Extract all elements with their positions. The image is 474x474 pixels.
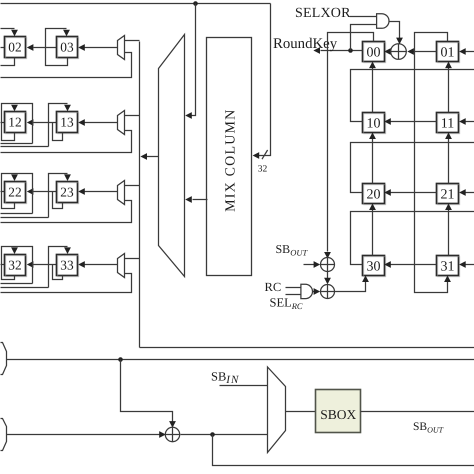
mux M5 (sbox input select) — [268, 367, 286, 453]
wire row2 wrap to mux M2 input B — [1, 201, 132, 223]
wire shift 10 up — [369, 62, 376, 113]
wire top bus line — [1, 3, 271, 5]
wire rail to mux M2 input A — [125, 185, 140, 187]
label SB_OUT bottom — [413, 421, 444, 434]
register 30 — [363, 256, 386, 277]
wire row0 wrap to mux M0 input B — [1, 53, 132, 78]
wire shift channel B row2 — [1, 217, 49, 219]
register 01 — [437, 42, 460, 63]
label 32 — [258, 165, 268, 175]
register 32 — [5, 255, 27, 277]
label SB_OUT key — [276, 242, 309, 257]
wire xor2 to 30 — [335, 275, 369, 291]
wire mux M4 output to rail — [140, 153, 158, 160]
wire RC to and gate — [286, 287, 301, 289]
register 21 — [437, 184, 460, 205]
mux M1 — [118, 111, 125, 135]
wire rail to mux M1 input A — [125, 115, 140, 117]
svg-text:01: 01 — [441, 45, 455, 60]
svg-text:31: 31 — [441, 259, 455, 274]
svg-text:10: 10 — [367, 116, 381, 131]
svg-text:11: 11 — [441, 116, 454, 131]
wire loop register 12 — [2, 104, 33, 144]
register 13 — [57, 112, 79, 134]
svg-text:SELXOR: SELXOR — [295, 6, 351, 21]
wire shift channel A row1 — [1, 143, 33, 145]
register 12 — [5, 112, 27, 134]
wire vertical rail — [139, 42, 141, 348]
wire shift channel B row1 — [1, 146, 49, 148]
xor gate key row0 — [391, 44, 407, 60]
wire key wrap row2 — [351, 212, 474, 265]
svg-text:23: 23 — [60, 185, 74, 200]
wire 13 to 12 — [27, 119, 57, 126]
wire SELXOR to and gate — [350, 16, 377, 18]
svg-text:30: 30 — [367, 259, 381, 274]
wire mux M5 to SBOX — [286, 411, 316, 413]
block MIX COLUMN — [207, 38, 252, 276]
label SB_IN — [211, 370, 239, 387]
wire bypass to big mux input A — [185, 4, 195, 119]
register 02 — [5, 37, 27, 59]
svg-text:22: 22 — [8, 185, 21, 200]
block SBOX — [316, 390, 361, 433]
svg-text:MIX COLUMN: MIX COLUMN — [223, 109, 238, 212]
label SELXOR — [295, 6, 351, 21]
xor gate key xor1 — [321, 258, 335, 272]
wire RoundKey output — [313, 47, 362, 54]
wire key wrap row0 — [351, 70, 474, 122]
wire shift 11 up — [445, 62, 452, 113]
svg-text:21: 21 — [441, 187, 455, 202]
wire 33 to 32 — [27, 261, 57, 268]
svg-text:32: 32 — [258, 165, 268, 175]
wire L2 tap to xor3 top — [121, 360, 176, 428]
wire XOR to 00 — [384, 48, 391, 55]
wire 01 top to 31 bottom — [415, 33, 451, 293]
port terminal T1 — [1, 343, 7, 375]
wire 00 top to key xor chain — [324, 33, 373, 259]
mux M0 — [118, 36, 125, 60]
register 23 — [57, 182, 79, 204]
wire 03 to 02 — [27, 44, 57, 51]
svg-text:00: 00 — [367, 45, 381, 60]
wire top entry register 33 — [49, 247, 71, 288]
wire shift 20 up — [369, 132, 376, 183]
wire loop register 33 — [53, 265, 63, 280]
wire rail to mux M0 input A — [125, 40, 140, 42]
wire input to 01 from off-frame right — [459, 48, 474, 55]
wire input to 11 from off-frame right — [459, 118, 474, 125]
wire shift 21 up — [445, 132, 452, 183]
wire top entry register 13 — [49, 104, 71, 147]
wire junction to and gate — [351, 25, 377, 51]
register 10 — [363, 113, 386, 134]
wire xor1 to xor2 — [324, 272, 331, 285]
wire xor3 to mux M5 — [181, 434, 268, 436]
wire shift 30 up — [369, 203, 376, 255]
wire loop register 23 — [53, 192, 63, 209]
wire junction down to L3 — [213, 435, 474, 466]
wire row0 output to off-frame left — [1, 47, 5, 49]
xor gate key xor2 — [321, 285, 335, 299]
svg-text:SBOX: SBOX — [320, 407, 356, 422]
node xor3 output junction — [210, 432, 215, 437]
label RC — [265, 280, 282, 294]
wire top bus down to MIX COLUMN input — [253, 4, 271, 159]
wire T2 to xor3 — [7, 431, 166, 438]
svg-text:13: 13 — [60, 115, 74, 130]
wire input to 31 from off-frame right — [459, 261, 474, 268]
svg-text:32: 32 — [8, 258, 21, 273]
xor gate bottom xor3 — [165, 427, 179, 441]
wire 01 to xor — [407, 48, 436, 55]
wire input to 21 from off-frame right — [459, 189, 474, 196]
register 31 — [437, 256, 460, 277]
wire 11 to 10 — [384, 118, 436, 125]
wire loop register 13 — [53, 123, 63, 141]
wire mux2 to 23 — [78, 188, 117, 195]
wire loop register 22 — [2, 174, 33, 214]
wire row2 output to off-frame left — [1, 191, 5, 193]
svg-text:33: 33 — [60, 258, 74, 273]
svg-text:03: 03 — [60, 40, 74, 55]
wire SEL_RC to and gate — [286, 294, 301, 296]
wire shift channel B row3 — [1, 287, 49, 289]
register 22 — [5, 182, 27, 204]
wire row1 output to off-frame left — [1, 122, 5, 124]
wire SB_IN to mux M5 — [220, 385, 268, 387]
wire mux0 to 03 — [78, 44, 117, 51]
wire shift 31 up — [445, 203, 452, 255]
wire rail to mux M3 input A — [125, 258, 140, 260]
bus width slash 32 — [262, 150, 268, 159]
wire key wrap row1 — [351, 143, 474, 193]
svg-text:20: 20 — [367, 187, 381, 202]
wire rail to bottom line L1 — [140, 347, 474, 349]
node on top bus — [193, 1, 198, 6]
wire row3 output to off-frame left — [1, 264, 5, 266]
node L2 junction — [118, 357, 123, 362]
mux M2 — [118, 181, 125, 205]
wire SBOX output — [361, 411, 474, 413]
wire mux3 to 33 — [78, 261, 117, 268]
register 20 — [363, 184, 386, 205]
mux M4 (state feedback select) — [159, 35, 185, 277]
mux M3 — [118, 254, 125, 278]
node RoundKey junction — [348, 48, 353, 53]
wire and gate to xor — [390, 22, 403, 45]
wire shift channel A row2 — [1, 213, 33, 215]
svg-text:02: 02 — [8, 40, 21, 55]
label SEL_RC — [270, 296, 303, 312]
wire row3 wrap to mux M3 input B — [1, 274, 132, 293]
wire loop register 03 — [46, 29, 70, 66]
svg-text:12: 12 — [8, 115, 21, 130]
svg-text:RC: RC — [265, 280, 282, 294]
register 03 — [57, 37, 79, 59]
wire mux1 to 13 — [78, 119, 117, 126]
wire row1 wrap to mux M1 input B — [1, 131, 132, 153]
register 11 — [437, 113, 460, 134]
wire MIX COLUMN output to big mux input B — [185, 196, 207, 203]
wire loop register 32 — [2, 247, 33, 284]
and gate U1 (SELXOR) — [377, 14, 389, 29]
port terminal T2 — [1, 419, 7, 451]
wire 21 to 20 — [384, 189, 436, 196]
wire loop register 02 — [1, 29, 18, 66]
wire SB_OUT to xor1 — [304, 261, 321, 268]
wire 23 to 22 — [27, 188, 57, 195]
wire L2 from T1 — [7, 359, 474, 361]
wire shift channel A row3 — [1, 283, 33, 285]
wire 31 to 30 — [384, 261, 436, 268]
register 33 — [57, 255, 79, 277]
wire top entry register 23 — [49, 174, 71, 218]
wire and gate U2 to xor2 — [313, 288, 321, 295]
register 00 — [363, 42, 386, 63]
and gate U2 (RC) — [301, 284, 313, 298]
label RoundKey — [273, 36, 338, 52]
